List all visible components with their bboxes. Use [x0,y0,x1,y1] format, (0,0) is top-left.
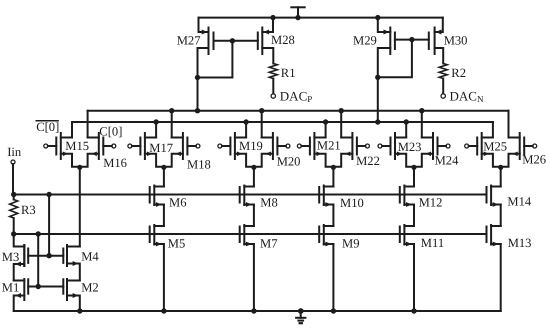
svg-text:M16: M16 [103,156,127,170]
svg-text:M11: M11 [421,236,444,250]
svg-text:M7: M7 [260,237,278,251]
svg-text:M5: M5 [168,237,186,251]
svg-text:M18: M18 [187,157,211,171]
svg-text:M22: M22 [356,154,380,168]
svg-text:M30: M30 [444,33,468,47]
svg-text:M15: M15 [65,139,89,153]
svg-text:M20: M20 [277,155,301,169]
svg-text:M25: M25 [483,139,507,153]
svg-text:M19: M19 [239,139,263,153]
svg-text:M8: M8 [260,196,278,210]
svg-text:M29: M29 [353,33,377,47]
svg-text:M6: M6 [169,195,187,209]
svg-text:M21: M21 [317,139,341,153]
svg-text:R3: R3 [21,203,36,217]
svg-text:M27: M27 [177,33,201,47]
svg-text:M14: M14 [507,195,531,209]
svg-text:M4: M4 [81,250,99,264]
svg-text:M10: M10 [340,196,364,210]
svg-text:R2: R2 [451,66,466,80]
svg-text:M23: M23 [398,140,422,154]
svg-text:M12: M12 [419,196,443,210]
svg-text:C[0]: C[0] [99,124,122,138]
svg-text:R1: R1 [281,66,296,80]
svg-text:M2: M2 [81,280,99,294]
svg-text:M3: M3 [2,250,20,264]
svg-text:M9: M9 [342,236,360,250]
svg-text:M26: M26 [522,152,546,166]
svg-text:Iin: Iin [7,145,22,159]
svg-text:DACN: DACN [450,89,484,105]
svg-text:M28: M28 [271,33,295,47]
svg-text:M17: M17 [149,141,173,155]
svg-text:M24: M24 [435,153,459,167]
svg-text:DACP: DACP [280,89,312,105]
svg-text:M1: M1 [2,280,20,294]
svg-text:M13: M13 [508,236,532,250]
svg-text:C[0]: C[0] [36,120,59,134]
